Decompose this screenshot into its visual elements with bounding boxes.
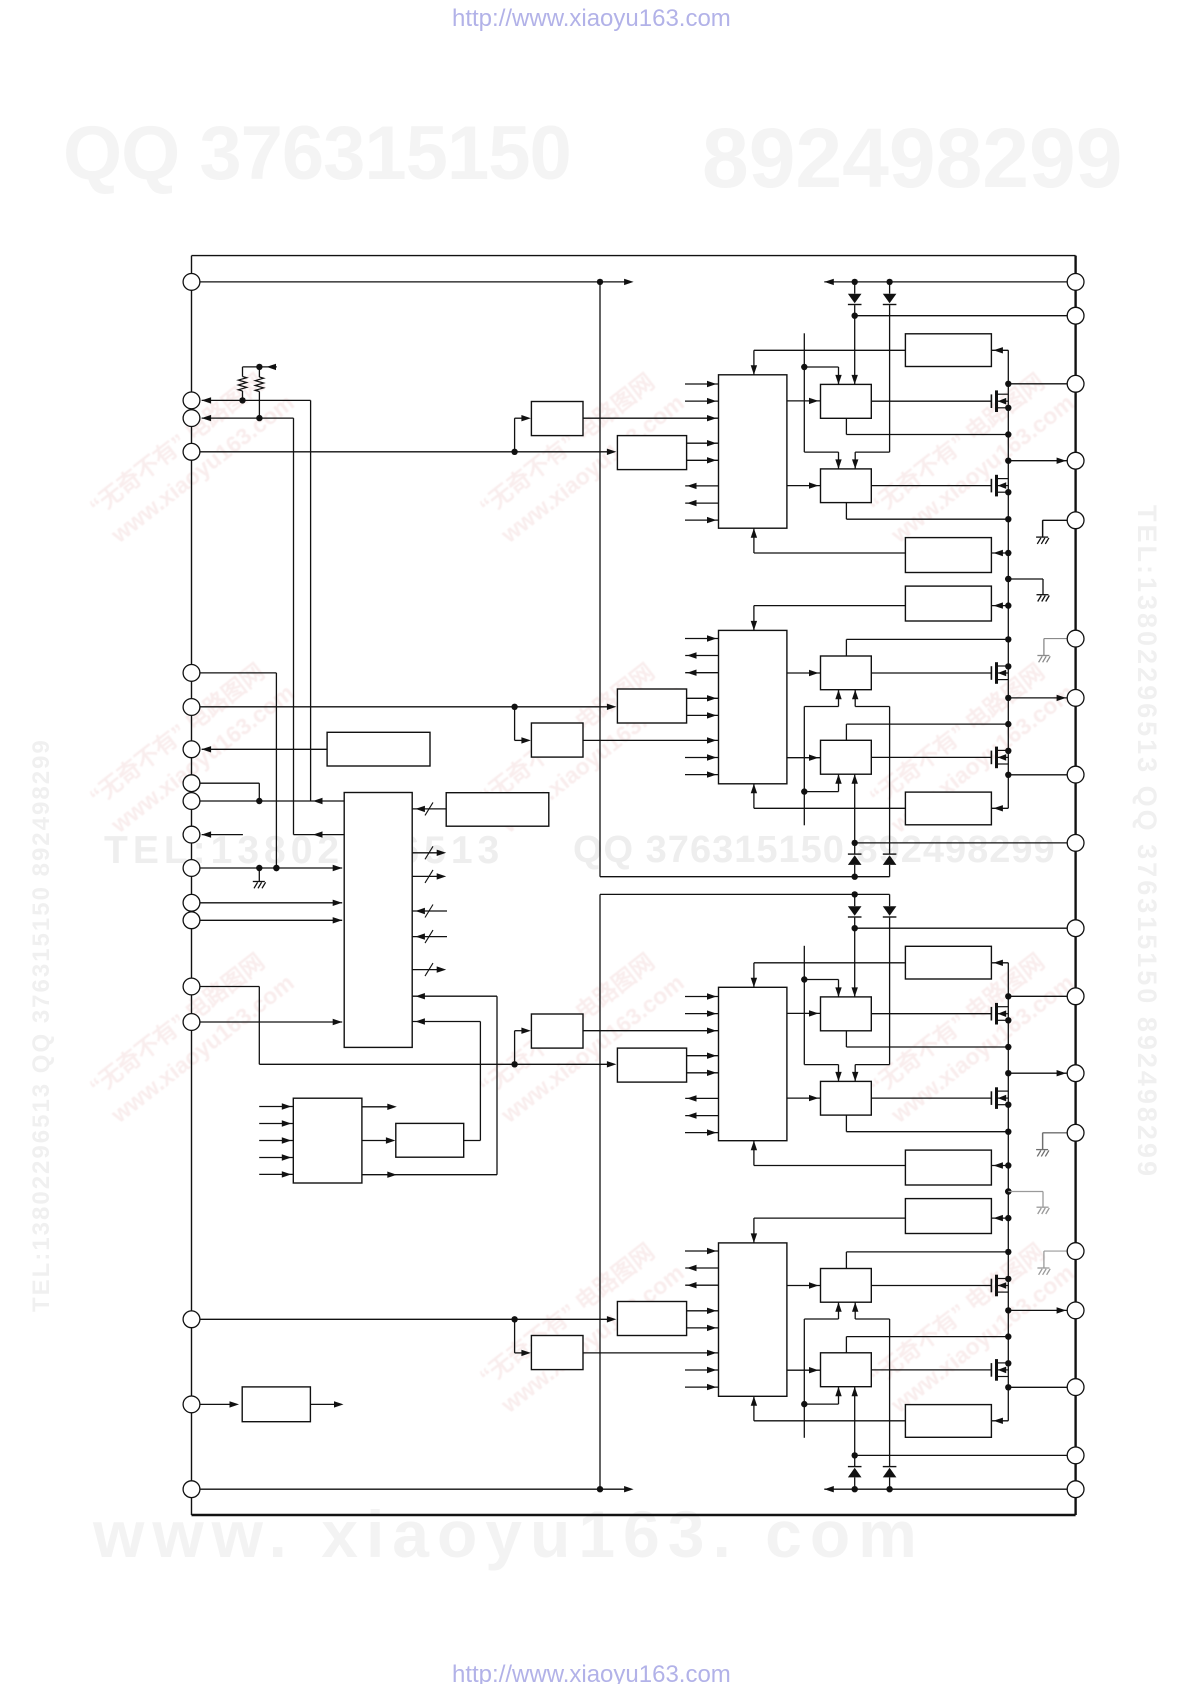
wire CH1/CH2 shared output rail (full column) <box>1005 350 1011 808</box>
wire P7 oscillator output to pin <box>202 746 328 752</box>
resistor R1 (pull-up on P2) <box>238 367 246 401</box>
wire CH3 logic to high-side driver <box>787 1010 821 1016</box>
wire CH2 pulse shaper output to logic block <box>583 737 719 743</box>
wire CH3 column A down to high-side driver <box>852 928 858 997</box>
ground CH3/CH4 signal ground 3 (pin) <box>1037 1251 1067 1275</box>
wire CH4 control input stub 3 <box>685 1248 719 1254</box>
pin P32 SGND2 (right) <box>1067 1243 1084 1260</box>
wire CH4 command branch to pulse shaper <box>515 1319 531 1356</box>
wire divider output stub <box>310 1401 343 1407</box>
block CH1 low-side gate driver <box>821 469 872 503</box>
watermark big QQ numbers top <box>63 110 571 197</box>
wire serial input stub 5 <box>259 1171 293 1177</box>
ground CH1/CH2 signal ground 3 (pin) <box>1037 639 1067 663</box>
wire CH3 low-side level shift to logic bottom <box>751 1141 906 1166</box>
wire CH2 low-side level shift to logic bottom <box>751 606 906 631</box>
diode CH1 D-A (charge pump) <box>848 294 862 305</box>
transistor CH4 low-side MOSFET <box>991 1275 1008 1297</box>
wire CH2 status output stub 2 <box>685 652 718 658</box>
wire CH2 high-side gate <box>871 756 991 758</box>
wire P9 mode line into system logic <box>200 798 344 804</box>
wire CH4 logic to low-side driver <box>787 1282 821 1288</box>
block command decoder <box>396 1123 464 1157</box>
wire CH2 rail into low-side level shift <box>991 602 1011 608</box>
wire CH1 VM supply to pin <box>852 313 1068 319</box>
wire CH1 VCC top rail (left segment) with junction to centre bus <box>200 279 634 285</box>
watermark big site bottom <box>93 1496 925 1572</box>
wire CH4 control input stub 2 <box>685 1367 719 1373</box>
pin P2 input A (left) <box>183 392 200 409</box>
wire CH1 low-side driver return <box>846 503 1011 523</box>
diode CH2 D-B (charge pump) <box>883 854 897 865</box>
wire CH1 VCC top rail (right segment to pin) <box>824 279 1067 285</box>
logic block U10 system control <box>344 793 412 1048</box>
wire CH4 low-side level shift to logic bottom <box>751 1218 906 1243</box>
wire CH4 gate drive branch column <box>801 1302 842 1438</box>
wire CH3 command branch to pulse shaper <box>515 1028 531 1065</box>
wire CH2 diode feed rail from centre bus <box>600 874 890 880</box>
transistor CH4 high-side MOSFET <box>991 1359 1008 1381</box>
wire CH3 low-side driver return <box>846 1115 1011 1135</box>
wire CH3 command input from internal node to decoder <box>259 1061 616 1067</box>
pin P13 strobe (left) <box>183 912 200 929</box>
wire CH1 column A down to high-side driver <box>852 316 858 385</box>
pin P28 VM3 (right) <box>1067 920 1084 937</box>
pin P20 VM1 (right) <box>1067 307 1084 324</box>
wire serial input stub 1 <box>259 1103 293 1109</box>
pin P21 SW1 (right) <box>1067 375 1084 392</box>
bus output stub 2 from system logic <box>412 870 446 883</box>
wire CH1 control input stub 2 <box>685 398 719 404</box>
wire serial input stub 4 <box>259 1154 293 1160</box>
ground CH3/CH4 substrate ground 2 (rail) <box>1005 1188 1049 1214</box>
block CH1 pulse shaper <box>531 402 583 436</box>
wire CH3 rail into high-side level shift <box>991 960 1008 966</box>
wire CH1 drain sense to pin <box>1008 383 1067 385</box>
ground CH1/CH2 substrate ground 2 (rail) <box>1005 576 1049 602</box>
wire CH3 control input stub 2 <box>685 1010 719 1016</box>
pin P15 enable (left) <box>183 1014 200 1031</box>
block oscillator <box>327 732 430 766</box>
wire P12 data into system logic <box>200 900 342 906</box>
wire P17 monitor into divider <box>200 1401 239 1407</box>
wire CH4 high-side gate <box>871 1369 991 1371</box>
wire P10 mute stub from pin <box>202 831 243 837</box>
block CH4 input decoder <box>617 1302 686 1336</box>
wire CH2 output to pin <box>1008 695 1067 701</box>
diode CH2 D-A (charge pump) <box>848 854 862 865</box>
block CH1 low-side level shift <box>905 538 991 573</box>
wire CH2 decoder output 2 to logic block <box>687 695 719 701</box>
wire CH1 status output stub 2 <box>685 500 718 506</box>
wire CH4 status output stub 2 <box>685 1265 718 1271</box>
node CH3 rail junction dots <box>1005 993 1011 1076</box>
wire CH3 decoder output 1 to logic block <box>687 1053 719 1059</box>
wire CH3 drain sense to pin <box>1008 995 1067 997</box>
wire CH1 decoder output 1 to logic block <box>687 440 719 446</box>
wire CH4 decoder output 1 to logic block <box>687 1325 719 1331</box>
wire CH1 diode A vertical <box>854 282 856 316</box>
wire CH1 rail into high-side level shift <box>991 347 1008 353</box>
pin P23 PGND1 (right) <box>1067 512 1084 529</box>
wire CH3 high-side gate <box>871 1013 991 1015</box>
pin P16 control in 4 (left) <box>183 1311 200 1328</box>
pin P34 SW4 (right) <box>1067 1379 1084 1396</box>
wire CH3 high-side driver return <box>846 1031 1011 1050</box>
wire CH2 drain sense to pin <box>1008 774 1067 776</box>
pin P5 clock (left) <box>183 665 200 682</box>
wire CH2 control input stub 2 <box>685 754 719 760</box>
resistor R2 (pull-up on P3) <box>255 367 263 418</box>
pin P25 OUT2 (right) <box>1067 690 1084 707</box>
wire P2 input A with pull resistor node <box>202 397 311 403</box>
wire CH1 decoder output 2 to logic block <box>687 457 719 463</box>
wire CH1 gate drive branch column <box>801 333 842 469</box>
wire CH2 status output stub 1 <box>685 670 718 676</box>
wire CH2 diode B vertical upper <box>889 865 891 877</box>
wire CH3 diode feed rail from centre bus <box>600 891 890 897</box>
wire CH3 logic to low-side driver <box>787 1095 821 1101</box>
block CH3 input decoder <box>617 1048 686 1082</box>
wire serial block feedback 1 into system logic <box>412 993 497 1175</box>
pin P7 osc out (left) <box>183 741 200 758</box>
block CH2 low-side gate driver <box>821 656 872 690</box>
wire CH4 diode B vertical upper <box>889 1477 891 1489</box>
wire P11 ground reference into system logic <box>200 865 342 871</box>
wire P13 strobe into system logic <box>200 917 342 923</box>
block register/latch <box>446 793 549 827</box>
wire CH1 pulse shaper output to logic block <box>583 415 719 421</box>
diode CH3 D-A (charge pump) <box>848 906 862 917</box>
pin P4 control in (left) <box>183 443 200 460</box>
wire CH2 control input stub 3 <box>685 635 719 641</box>
wire CH1 command input from pin to decoder <box>200 449 616 455</box>
wire CH4 decoder output 2 to logic block <box>687 1308 719 1314</box>
wire P3 input B with pull resistor node <box>202 415 294 421</box>
wire CH4 logic to high-side driver <box>787 1367 821 1373</box>
block CH4 low-side level shift <box>905 1199 991 1234</box>
diode CH4 D-A (charge pump) <box>848 1467 862 1478</box>
block CH2 low-side level shift <box>905 586 991 621</box>
block CH3 low-side gate driver <box>821 1081 872 1115</box>
block CH1 high-side gate driver <box>821 384 872 418</box>
pin P24 SGND1 (right) <box>1067 630 1084 647</box>
wire CH2 logic to high-side driver <box>787 755 821 761</box>
wire CH2 decoder output 1 to logic block <box>687 712 719 718</box>
block CH2 high-side level shift <box>905 792 991 825</box>
wire CH3 rail into low-side level shift <box>991 1162 1011 1168</box>
pin P33 OUT4 (right) <box>1067 1302 1084 1319</box>
block CH3 high-side level shift <box>905 946 991 979</box>
node CH1 rail junction dots <box>1005 381 1011 464</box>
wire CH2 command input from pin to decoder <box>200 704 616 710</box>
wire CH1 high-side gate <box>871 400 991 402</box>
wire CH2 control input stub 1 <box>685 771 719 777</box>
wire CH4 output to pin <box>1008 1307 1067 1313</box>
wire CH4 rail into low-side level shift <box>991 1215 1011 1221</box>
wire CH4 VCC top rail (left segment) with junction to centre bus <box>200 1486 634 1492</box>
wire CH3 control input stub 3 <box>685 1129 719 1135</box>
pin P18 VCC2 (left) <box>183 1481 200 1498</box>
wire CH4 control input stub 1 <box>685 1384 719 1390</box>
wire CH3 output to pin <box>1008 1070 1067 1076</box>
block CH1 input decoder <box>617 436 686 470</box>
transistor CH3 high-side MOSFET <box>991 1003 1008 1025</box>
wire CH4 status output stub 1 <box>685 1282 718 1288</box>
wire CH4 level shift to logic top <box>751 1396 906 1421</box>
wire P14 control jog down to channel 3 command line <box>200 987 259 1065</box>
pin P29 SW3 (right) <box>1067 988 1084 1005</box>
outer frame of IC block <box>192 256 1076 1515</box>
block CH2 pulse shaper <box>531 723 583 757</box>
wire CH3 status output stub 1 <box>685 1095 718 1101</box>
wire CH2 gate drive branch column <box>801 690 842 826</box>
bus input stub 2 into system logic <box>412 930 447 943</box>
block CH3 high-side gate driver <box>821 997 872 1031</box>
node CH2 rail junction dots <box>1005 695 1011 778</box>
wire CH2 column A down to high-side driver <box>852 774 858 843</box>
pin P12 data (left) <box>183 894 200 911</box>
pin P14 control in 3 (left) <box>183 978 200 995</box>
block CH2 high-side gate driver <box>821 740 872 774</box>
wire serial input stub 3 <box>259 1137 293 1143</box>
block divider <box>242 1387 310 1422</box>
block CH4 high-side level shift <box>905 1405 991 1438</box>
wire P15 enable into system logic <box>200 1019 342 1025</box>
wire CH1 level shift to logic top <box>751 350 906 375</box>
block CH4 pulse shaper <box>531 1336 583 1370</box>
wire CH1 logic to high-side driver <box>787 398 821 404</box>
wire CH3 decoder output 2 to logic block <box>687 1070 719 1076</box>
wire CH3 diode A vertical <box>854 894 856 928</box>
transistor CH2 high-side MOSFET <box>991 747 1008 769</box>
wire mute line into system logic <box>294 831 345 837</box>
transistor CH3 low-side MOSFET <box>991 1087 1008 1109</box>
wire serial to command decoder <box>362 1137 396 1143</box>
wire CH1 column B down to low-side driver <box>852 305 890 469</box>
wire serial input stub 2 <box>259 1120 293 1126</box>
block CH1 high-side level shift <box>905 334 991 367</box>
wire CH3/CH4 shared output rail (full column) <box>1005 963 1011 1421</box>
watermark pink diagonal tiles and grey margin columns <box>82 358 302 551</box>
block serial interface <box>293 1098 362 1183</box>
wire CH4 low-side driver return <box>846 1249 1011 1269</box>
wire CH4 rail into high-side level shift <box>991 1418 1008 1424</box>
wire CH3 column B down to low-side driver <box>852 918 890 1082</box>
logic block U-CH4 (output control logic) <box>719 1243 787 1396</box>
block CH3 pulse shaper <box>531 1014 583 1048</box>
wire vertical from P2 wire down to logic output <box>310 400 312 801</box>
wire P5 clock line down the left side <box>200 673 280 871</box>
wire P8 reset line <box>200 783 262 804</box>
pin P17 monitor (left) <box>183 1396 200 1413</box>
wire CH4 low-side gate <box>871 1285 991 1287</box>
wire CH3 level shift to logic top <box>751 963 906 988</box>
watermark top url <box>452 5 731 33</box>
bus output stub 3 from system logic <box>412 963 446 976</box>
pin P9 mode (left) <box>183 793 200 810</box>
pin P35 VM4 (right) <box>1067 1447 1084 1464</box>
wire serial output 3 corner <box>362 1172 497 1178</box>
ground CH1/CH2 power ground 1 (pin) <box>1036 520 1068 544</box>
block CH4 high-side gate driver <box>821 1353 872 1387</box>
diode CH1 D-B (charge pump) <box>883 294 897 305</box>
pin P10 mute (left) <box>183 826 200 843</box>
block CH3 low-side level shift <box>905 1150 991 1185</box>
wire CH4 column A down to high-side driver <box>852 1387 858 1456</box>
wire CH1 rail into low-side level shift <box>991 550 1011 556</box>
block CH2 input decoder <box>617 689 686 723</box>
watermark bottom url <box>452 1661 731 1684</box>
wire CH2 low-side gate <box>871 672 991 674</box>
wire CH4 VM supply to pin <box>852 1452 1068 1458</box>
wire CH4 diode A vertical <box>854 1455 856 1489</box>
wire CH3 pulse shaper output to logic block <box>583 1028 719 1034</box>
wire command decoder output corner <box>464 1140 481 1142</box>
wire CH1 low-side level shift to logic bottom <box>751 528 906 553</box>
wire CH2 low-side driver return <box>846 636 1011 656</box>
wire CH1 high-side driver return <box>846 418 1011 437</box>
wire CH2 diode A vertical <box>854 843 856 877</box>
wire CH2 VM supply to pin <box>852 840 1068 846</box>
bus output stub 1 from system logic <box>412 846 446 859</box>
diode CH3 D-B (charge pump) <box>883 906 897 917</box>
pin P11 signal gnd ref (left) <box>183 860 200 877</box>
wire CH3 diode B vertical upper <box>889 894 891 906</box>
logic block U-CH3 (output control logic) <box>719 987 787 1140</box>
wire CH3 gate drive branch column <box>801 946 842 1082</box>
wire CH1 command branch to pulse shaper <box>515 415 531 452</box>
node CH4 rail junction dots <box>1005 1307 1011 1390</box>
bus input stub 1 into system logic <box>412 905 447 918</box>
wire CH1 low-side gate <box>871 485 991 487</box>
wire CH2 logic to low-side driver <box>787 670 821 676</box>
wire CH3 status output stub 2 <box>685 1112 718 1118</box>
wire vertical from P3 wire down to mute line <box>293 418 295 834</box>
node centre bus (upper segment) <box>599 282 601 877</box>
wire CH1 logic to low-side driver <box>787 482 821 488</box>
pin P31 PGND2 (right) <box>1067 1124 1084 1141</box>
node centre bus (lower segment) <box>599 894 601 1489</box>
wire CH4 column B down to low-side driver <box>852 1302 890 1466</box>
diode CH4 D-B (charge pump) <box>883 1467 897 1478</box>
wire CH4 drain sense to pin <box>1008 1386 1067 1388</box>
transistor CH2 low-side MOSFET <box>991 662 1008 684</box>
wire CH3 low-side gate <box>871 1097 991 1099</box>
wire CH2 level shift to logic top <box>751 784 906 809</box>
wire CH4 pulse shaper output to logic block <box>583 1350 719 1356</box>
wire CH2 command branch to pulse shaper <box>515 707 531 744</box>
watermark TEL line middle <box>104 829 504 873</box>
wire CH2 column B down to low-side driver <box>852 690 890 854</box>
wire CH1 status output stub 1 <box>685 483 718 489</box>
transistor CH1 low-side MOSFET <box>991 475 1008 497</box>
wire resistor common top node <box>243 364 277 370</box>
pin P26 SW2 (right) <box>1067 766 1084 783</box>
wire CH2 high-side driver return <box>846 721 1011 740</box>
wire CH4 VCC top rail (right segment to pin) <box>824 1486 1067 1492</box>
bus from register block into system logic <box>412 802 446 815</box>
pin P6 control in 2 (left) <box>183 699 200 716</box>
wire CH1 control input stub 3 <box>685 517 719 523</box>
wire CH4 high-side driver return <box>846 1333 1011 1352</box>
wire serial output stub <box>362 1104 397 1110</box>
pin P1 VCC (left) <box>183 274 200 291</box>
pin P19 VCC top (right) <box>1067 274 1084 291</box>
wire serial decode feedback into system logic <box>412 1018 480 1140</box>
wire CH1 diode B vertical upper <box>889 282 891 294</box>
wire CH1 control input stub 1 <box>685 381 719 387</box>
pin P36 VCC bottom (right) <box>1067 1481 1084 1498</box>
logic block U-CH1 (output control logic) <box>719 375 787 528</box>
pin P22 OUT1 (right) <box>1067 452 1084 469</box>
logic block U-CH2 (output control logic) <box>719 630 787 783</box>
ground CH3/CH4 power ground 1 (pin) <box>1036 1133 1068 1157</box>
pin P3 input B (left) <box>183 410 200 427</box>
wire CH4 command input from pin to decoder <box>200 1316 616 1322</box>
wire CH3 VM supply to pin <box>852 925 1068 931</box>
wire CH3 control input stub 1 <box>685 993 719 999</box>
wire CH1 output to pin <box>1008 458 1067 464</box>
pin P8 reset (left) <box>183 775 200 792</box>
transistor CH1 high-side MOSFET <box>991 390 1008 412</box>
ground signal ground at P11 node <box>253 868 266 888</box>
pin P30 OUT3 (right) <box>1067 1065 1084 1082</box>
pin P27 VM2 (right) <box>1067 835 1084 852</box>
block CH4 low-side gate driver <box>821 1269 872 1303</box>
wire CH2 rail into high-side level shift <box>991 805 1008 811</box>
